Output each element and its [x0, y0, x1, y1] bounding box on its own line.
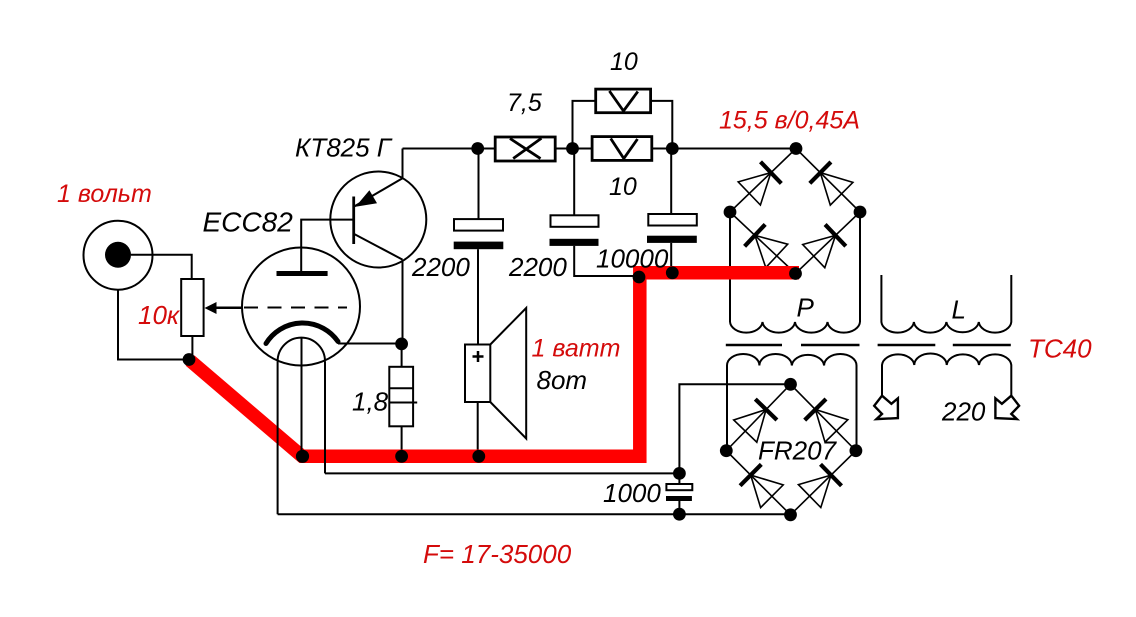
node red corner: [296, 450, 309, 463]
svg-text:8от: 8от: [537, 365, 588, 395]
node bridge1 right: [854, 206, 867, 219]
resistor R3 7,5: [495, 137, 555, 161]
svg-text:TC40: TC40: [1028, 334, 1092, 364]
node cathode-emitter: [395, 338, 408, 351]
transistor collector line: [354, 234, 403, 260]
svg-text:P: P: [797, 293, 815, 323]
wire collector down to node: [402, 260, 404, 344]
bridge BR1 diamond edges: [730, 149, 860, 274]
svg-text:1 вольт: 1 вольт: [57, 180, 152, 208]
wire cathode tap down to red node: [301, 337, 303, 456]
wire input to potentiometer top: [131, 255, 192, 279]
potentiometer R1 wiper arrow: [216, 307, 242, 309]
node resistor 1,8 on red: [395, 450, 408, 463]
node bridge2 left: [720, 444, 733, 457]
wire input shield down to node: [118, 290, 189, 360]
node top rail C3: [666, 142, 679, 155]
svg-text:10000: 10000: [596, 244, 669, 274]
wire potentiometer bottom to node: [191, 336, 193, 360]
tube anode bar: [277, 271, 328, 276]
node bridge2 right: [850, 444, 863, 457]
node bridge2 top: [784, 378, 797, 391]
wire resistor 1,8 to red rail: [401, 426, 403, 450]
node top rail C1: [471, 142, 484, 155]
wire anode up to transistor base: [301, 220, 354, 271]
svg-text:КТ825 Г: КТ825 Г: [295, 133, 393, 163]
wire emitter up to top rail: [402, 149, 404, 179]
node cap1000 top: [673, 467, 686, 480]
svg-text:10: 10: [609, 173, 637, 201]
tube grid dashed line: [216, 307, 242, 309]
tube cathode arc: [266, 323, 338, 344]
wire bottom rail: [278, 513, 791, 515]
diode D4: [825, 225, 846, 247]
mains plug arrow left: [874, 396, 898, 419]
diode D6: [805, 399, 826, 420]
node red corner top: [633, 271, 646, 284]
node bridge1 bottom: [789, 267, 802, 280]
svg-text:2200: 2200: [508, 252, 567, 282]
wire branch up: [573, 101, 596, 149]
svg-text:15,5 в/0,45А: 15,5 в/0,45А: [719, 106, 860, 134]
mains plug arrow right: [995, 396, 1019, 419]
node speaker on red: [472, 450, 485, 463]
wire heater left leg to bottom rail: [277, 361, 279, 514]
wire mid rail: [325, 472, 679, 474]
red signal path: [190, 273, 799, 457]
transformer T1 secondary winding: [727, 354, 857, 451]
transformer T1 core: [726, 344, 782, 346]
input connector X1: [84, 221, 153, 290]
diode D8: [821, 464, 842, 486]
svg-text:7,5: 7,5: [507, 89, 542, 117]
tube heater arc: [278, 338, 325, 362]
svg-text:220: 220: [941, 397, 986, 427]
node C3 on red: [666, 266, 679, 279]
node bridge1 left: [724, 206, 737, 219]
transistor base bar: [352, 197, 355, 245]
wire heater right leg to mid rail: [324, 361, 326, 473]
resistor R5 10 bottom: [592, 137, 652, 161]
transformer T2 core: [878, 344, 936, 346]
diode D3: [745, 224, 766, 246]
svg-text:ECC82: ECC82: [203, 207, 294, 238]
speaker horn: [490, 308, 526, 439]
capacitor C4 1000: [666, 484, 692, 490]
svg-text:FR207: FR207: [758, 436, 838, 466]
svg-text:1,8: 1,8: [352, 387, 389, 417]
resistor R4 10 top: [596, 89, 651, 113]
node below potentiometer: [183, 353, 196, 366]
capacitor C2 2200: [573, 149, 575, 216]
potentiometer R1 body: [181, 279, 203, 336]
transformer T1 primary winding P: [730, 322, 860, 333]
transistor Q1 KT825 circle: [330, 172, 426, 268]
wire branch down: [651, 101, 673, 149]
wire node to resistor 1,8: [401, 344, 403, 367]
svg-text:1 ватт: 1 ватт: [532, 335, 621, 363]
svg-text:F= 17-35000: F= 17-35000: [423, 539, 572, 569]
node bridge1 top: [790, 142, 803, 155]
wire between 7,5 and parallel pair: [555, 148, 593, 150]
wire speaker bottom to red rail: [477, 402, 479, 450]
resistor R2 1,8 body: [389, 367, 413, 427]
wire to bridge: [652, 148, 796, 150]
bridge BR2 FR207 diamond edges: [726, 384, 856, 515]
svg-text:1000: 1000: [603, 478, 661, 508]
wire bridge2 top to cap 1000: [679, 384, 790, 473]
wire top rail left: [403, 148, 497, 150]
diode D5: [755, 399, 777, 420]
speaker plus sign: [473, 351, 484, 362]
svg-text:2200: 2200: [411, 252, 470, 282]
wire bridge left to transformer: [729, 212, 731, 322]
wire cathode to emitter node: [338, 343, 402, 345]
diode D1: [761, 162, 782, 184]
node cap1000 bottom: [673, 508, 686, 521]
svg-text:10к: 10к: [138, 300, 181, 330]
node bridge2 bottom: [784, 508, 797, 521]
wire bridge right to transformer: [859, 212, 861, 322]
capacitor C1 2200: [478, 149, 480, 220]
diode D2: [810, 162, 831, 183]
transformer T2 primary winding L: [881, 275, 1011, 333]
speaker rectangle: [465, 345, 490, 403]
transformer T2 secondary winding 220: [882, 354, 1011, 396]
svg-text:L: L: [952, 295, 966, 325]
svg-text:10: 10: [610, 48, 638, 76]
tube U1 ECC82 envelope: [242, 248, 360, 366]
diode D7: [740, 464, 761, 485]
capacitor C3 10000: [670, 149, 672, 215]
node top rail branch: [566, 142, 579, 155]
transistor emitter line with arrow: [354, 178, 403, 207]
